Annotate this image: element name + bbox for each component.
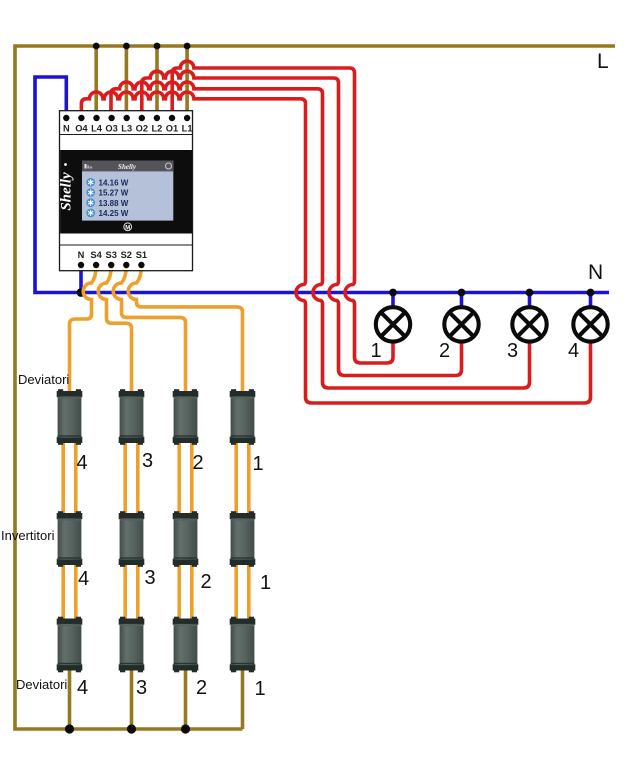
- svg-text:3: 3: [144, 567, 155, 589]
- svg-text:2: 2: [439, 340, 450, 362]
- svg-text:14.16 W: 14.16 W: [99, 178, 129, 187]
- switch invertitore 2: [173, 511, 199, 567]
- svg-text:Deviatori: Deviatori: [16, 677, 67, 692]
- wire O4 to lamp (red): [81, 92, 590, 403]
- wire traveler pair col 2 row2-row3: [177, 561, 181, 621]
- U1 terminal S1 (bottom): [138, 262, 144, 268]
- switch deviatore top 2: [173, 389, 199, 445]
- wire N stub to lamp 2 (blue): [460, 293, 464, 308]
- svg-text:4: 4: [76, 452, 87, 474]
- svg-text:L2: L2: [151, 124, 162, 134]
- svg-text:14.25 W: 14.25 W: [99, 209, 129, 218]
- svg-text:3: 3: [136, 677, 147, 699]
- junction dot on N rail at lamp 1: [389, 289, 397, 297]
- svg-text:Invertitori: Invertitori: [1, 528, 55, 543]
- junction dot on bottom L rail: [181, 724, 190, 733]
- U1 terminal O1 (top): [169, 115, 175, 121]
- wire traveler pair col 4 row1-row2: [74, 441, 78, 515]
- switch deviatore bottom 4: [57, 617, 83, 673]
- op-amp U1: Shelly Pro 4PM device body: [59, 111, 193, 271]
- wire traveler pair col 2 row1-row2: [190, 441, 194, 515]
- switch deviatore bottom 3: [119, 617, 145, 673]
- switch deviatore bottom 1: [230, 617, 256, 673]
- wire traveler pair col 3 row2-row3: [136, 561, 140, 621]
- svg-text:Shelly: Shelly: [59, 172, 75, 211]
- junction dot on bottom L rail: [127, 724, 136, 733]
- junction dot on L rail at L2: [154, 43, 161, 50]
- wire traveler pair col 4 row2-row3: [61, 561, 65, 621]
- svg-text:L3: L3: [121, 124, 132, 134]
- lamp 4: [573, 307, 607, 341]
- wire traveler pair col 3 row1-row2: [123, 441, 127, 515]
- U1 terminal L1 (top): [184, 115, 190, 121]
- svg-text:2: 2: [200, 571, 211, 593]
- svg-text:13.88 W: 13.88 W: [99, 199, 129, 208]
- U1 terminal S2 (bottom): [123, 262, 129, 268]
- switch deviatore top 4: [57, 389, 83, 445]
- svg-text:1: 1: [370, 340, 381, 362]
- svg-text:S3: S3: [106, 250, 117, 260]
- wire return col 4 to L rail (brown): [68, 668, 72, 729]
- svg-text:N: N: [63, 124, 70, 134]
- wire traveler pair col 3 row1-row2: [136, 441, 140, 515]
- wire N stub to lamp 4 (blue): [589, 293, 593, 308]
- wire N stub to lamp 3 (blue): [528, 293, 532, 308]
- wire return col 2 to L rail (brown): [184, 668, 188, 729]
- svg-text:S1: S1: [136, 250, 147, 260]
- svg-text:N: N: [78, 250, 85, 260]
- junction dot on N rail at lamp 2: [458, 289, 466, 297]
- svg-text:L: L: [597, 50, 609, 73]
- lamp 1: [376, 307, 410, 341]
- U1 terminal N (bottom): [78, 262, 84, 268]
- lamp 2: [444, 307, 478, 341]
- svg-text:O1: O1: [166, 124, 178, 134]
- wire traveler pair col 1 row2-row3: [234, 561, 238, 621]
- wire S4 to switch column (orange): [70, 266, 97, 393]
- svg-text:1: 1: [260, 572, 271, 594]
- svg-text:4: 4: [77, 677, 88, 699]
- U1 terminal O3 (top): [108, 115, 114, 121]
- wire L3 drop from L rail: [125, 46, 129, 117]
- wire return col 1 to L rail (brown): [241, 668, 245, 729]
- junction dot on L rail at L3: [123, 43, 130, 50]
- U1 terminal L4 (top): [93, 115, 99, 121]
- svg-text:3: 3: [142, 450, 153, 472]
- wire N (blue): from Shelly top N terminal up-left-down to N rail: [35, 77, 609, 293]
- wire traveler pair col 1 row2-row3: [247, 561, 251, 621]
- svg-text:4: 4: [78, 568, 89, 590]
- switch deviatore top 3: [119, 389, 145, 445]
- junction dot on L rail at L4: [93, 43, 100, 50]
- U1 terminal S4 (bottom): [93, 262, 99, 268]
- svg-text:M: M: [125, 225, 130, 231]
- svg-text:L4: L4: [91, 124, 103, 134]
- svg-text:2: 2: [196, 677, 207, 699]
- junction dot on bottom L rail: [65, 724, 74, 733]
- switch deviatore top 1: [230, 389, 256, 445]
- svg-text:O2: O2: [136, 124, 148, 134]
- wire traveler pair col 1 row1-row2: [234, 441, 238, 515]
- svg-text:N: N: [588, 261, 603, 284]
- svg-text:Deviatori: Deviatori: [18, 372, 69, 387]
- wire traveler pair col 2 row1-row2: [177, 441, 181, 515]
- wire S2 to switch column (orange): [113, 266, 185, 393]
- U1 terminal O4 (top): [78, 115, 84, 121]
- svg-text:15.27 W: 15.27 W: [99, 189, 129, 198]
- U1 terminal L3 (top): [124, 115, 130, 121]
- wire N stub from Shelly bottom N terminal: [79, 266, 83, 293]
- wire traveler pair col 1 row1-row2: [247, 441, 251, 515]
- wire traveler pair col 3 row2-row3: [123, 561, 127, 621]
- wire S1 to switch column (orange): [128, 266, 242, 393]
- wire S3 to switch column (orange): [98, 266, 131, 393]
- svg-text:2: 2: [192, 452, 203, 474]
- wire O1 to lamp (red): [172, 61, 393, 363]
- wire N stub to lamp 1 (blue): [391, 293, 395, 308]
- lamp 3: [512, 307, 546, 341]
- wire L2 drop from L rail: [155, 46, 159, 117]
- junction dot on N rail at lamp 3: [526, 289, 534, 297]
- svg-text:3: 3: [507, 340, 518, 362]
- wire return col 3 to L rail (brown): [130, 668, 134, 729]
- svg-text:S2: S2: [121, 250, 132, 260]
- svg-text:1: 1: [254, 678, 265, 700]
- wire L4 drop from L rail: [94, 46, 98, 117]
- svg-text:4: 4: [568, 340, 579, 362]
- svg-text:L1: L1: [182, 124, 193, 134]
- U1 terminal N (top): [63, 115, 69, 121]
- svg-text:1: 1: [252, 453, 263, 475]
- switch invertitore 1: [230, 511, 256, 567]
- svg-text:O4: O4: [75, 124, 88, 134]
- junction dot on L rail at L1: [184, 43, 191, 50]
- svg-text:Shelly: Shelly: [118, 163, 137, 171]
- wire O2 to lamp (red): [142, 71, 462, 375]
- U1 terminal S3 (bottom): [108, 262, 114, 268]
- svg-text:S4: S4: [90, 250, 102, 260]
- switch deviatore bottom 2: [173, 617, 199, 673]
- svg-text:O3: O3: [105, 124, 117, 134]
- wire O3 to lamp (red): [111, 82, 530, 388]
- wire traveler pair col 4 row2-row3: [74, 561, 78, 621]
- U1 terminal L2 (top): [154, 115, 160, 121]
- wire traveler pair col 2 row2-row3: [190, 561, 194, 621]
- wire traveler pair col 4 row1-row2: [61, 441, 65, 515]
- switch invertitore 4: [57, 511, 83, 567]
- U1 terminal O2 (top): [139, 115, 145, 121]
- junction dot on N rail at lamp 4: [587, 289, 595, 297]
- switch invertitore 3: [119, 511, 145, 567]
- junction dot N stub on N rail: [77, 288, 86, 297]
- wire L1 drop from L rail: [185, 46, 189, 117]
